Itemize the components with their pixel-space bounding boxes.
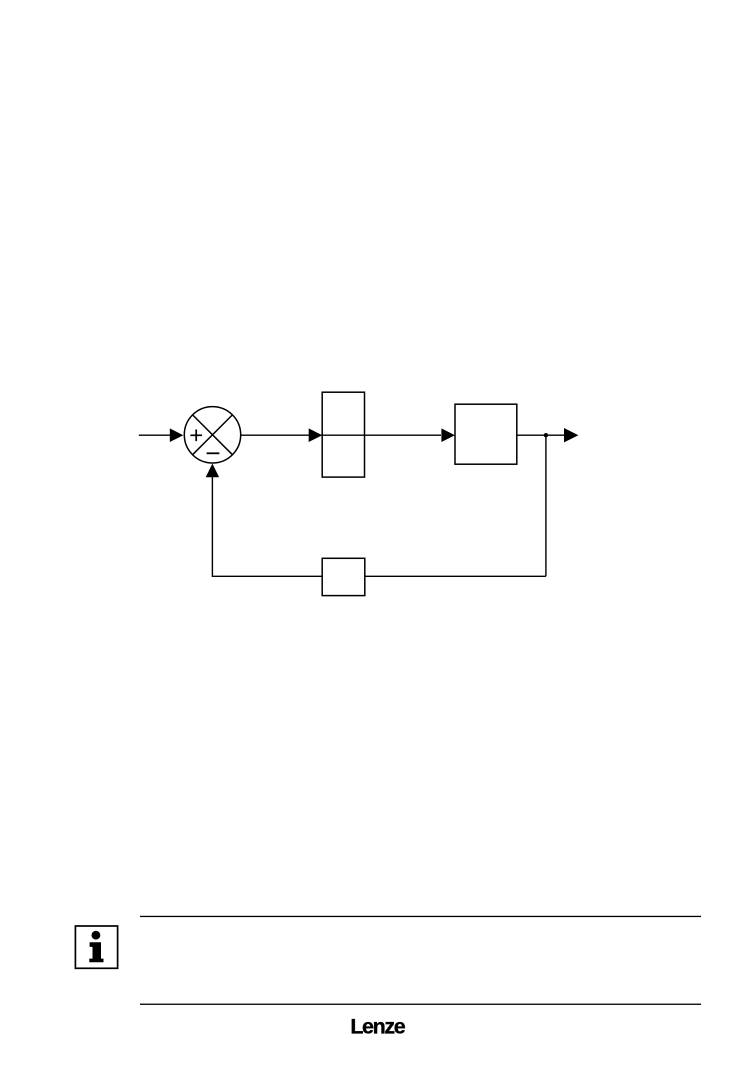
wire: feedback vertical left xyxy=(211,477,213,577)
svg-text:Lenze: Lenze xyxy=(350,1015,405,1039)
icon: info i glyph dot xyxy=(92,931,101,940)
block: feedback element (small rectangle) xyxy=(322,558,365,595)
rule: footer top line xyxy=(140,916,701,917)
arrowhead: into controller block xyxy=(309,428,323,442)
summing junction X diagonal 2 xyxy=(193,415,233,455)
arrowhead: into plant block xyxy=(441,428,455,442)
arrowhead: output xyxy=(564,428,578,442)
block: controller (tall rectangle) xyxy=(322,392,364,477)
label: minus sign xyxy=(207,452,220,454)
icon: info box xyxy=(75,926,117,968)
block: plant (square) xyxy=(455,404,517,464)
summing junction X diagonal 1 xyxy=(193,415,233,455)
wire: setpoint input line xyxy=(139,434,171,436)
summing junction S1 xyxy=(184,407,240,463)
wire: output line xyxy=(517,434,565,436)
rule: footer bottom line xyxy=(140,1004,701,1005)
wire: feedback vertical right xyxy=(545,435,547,576)
wire: feedback horizontal xyxy=(212,575,546,577)
label: plus sign xyxy=(190,430,202,442)
wire: summing junction to controller block xyxy=(241,434,441,436)
icon: info i glyph stem xyxy=(89,942,103,962)
node: output junction dot xyxy=(544,433,548,437)
arrowhead: input into summing junction xyxy=(170,428,184,442)
arrowhead: feedback into summing junction xyxy=(206,464,219,478)
